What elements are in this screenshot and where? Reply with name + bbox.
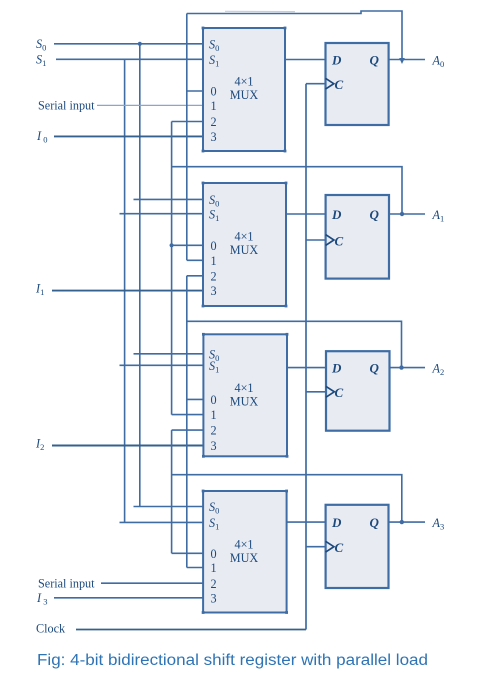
wire MUX3 pin1 stub from A1 bus <box>172 414 204 416</box>
flip-flop FF3 clock triangle and label C <box>326 386 334 397</box>
svg-text:Q: Q <box>370 360 380 375</box>
flip-flop FF1 clock triangle and label C <box>326 78 334 89</box>
wire MUX3 pin2 stub from A3 bus <box>172 429 204 431</box>
svg-text:C: C <box>335 77 344 92</box>
wire I1 input line <box>52 290 203 292</box>
wire clock stub to FF3 <box>306 391 326 393</box>
mux U3 (4x1 MUX stage 2) box <box>202 333 288 458</box>
wire FF3 Q output line <box>390 367 426 369</box>
artifact faint line above top wire <box>225 10 295 12</box>
svg-text:1: 1 <box>210 408 216 422</box>
wire clock stub to FF1 <box>306 83 326 85</box>
wire MUX2 S1 stub <box>120 213 204 215</box>
wire MUX3 pin0 stub from A2 bus <box>187 398 204 400</box>
svg-text:0: 0 <box>210 239 216 253</box>
svg-text:1: 1 <box>210 561 216 575</box>
svg-text:1: 1 <box>210 254 216 268</box>
mux U4 (4x1 MUX stage 3) box <box>202 490 288 614</box>
svg-text:3: 3 <box>210 130 216 144</box>
svg-text:0: 0 <box>210 547 216 561</box>
wire mux U2 output to FF2 D <box>286 213 326 215</box>
node A1 feedback junction dot <box>400 212 404 216</box>
flip-flop FF2 clock triangle and label C <box>326 235 334 246</box>
wire A2 feedback channel <box>187 321 402 367</box>
svg-text:Q: Q <box>370 207 380 222</box>
svg-text:Q: Q <box>370 52 380 67</box>
wire MUX2 pin0 stub from A1 bus <box>172 244 203 246</box>
svg-text:2: 2 <box>210 269 216 283</box>
wire mux U1 output to FF1 D <box>285 59 326 61</box>
flip-flop FF3 box <box>326 351 390 431</box>
wire FF2 Q output line <box>389 213 425 215</box>
wire FF4 Q output line <box>389 521 426 523</box>
svg-text:4×1: 4×1 <box>234 381 253 395</box>
svg-text:2: 2 <box>210 115 216 129</box>
svg-text:Serial input: Serial input <box>38 99 95 113</box>
svg-text:3: 3 <box>210 439 216 453</box>
wire clock stub to FF2 <box>306 239 326 241</box>
svg-text:MUX: MUX <box>230 394 259 408</box>
wire MUX4 pin1 stub from A2 bus <box>187 567 203 569</box>
wire A1 feedback channel <box>172 167 402 214</box>
svg-text:D: D <box>331 207 342 222</box>
svg-text:Fig: 4-bit bidirectional shift: Fig: 4-bit bidirectional shift register … <box>37 652 428 669</box>
wire MUX3 S0 stub <box>134 353 204 355</box>
net A3 vertical bus (feeds MUX3 pin2, MUX4 pin0) <box>171 430 173 553</box>
flip-flop FF4 clock triangle and label C <box>326 541 334 552</box>
svg-text:2: 2 <box>210 424 216 438</box>
wire I3 input line <box>54 597 203 599</box>
node S0 junction dot <box>138 42 142 46</box>
net A0 vertical bus (feeds MUX1 pin0 and MUX2 pin1) <box>186 14 188 261</box>
wire MUX4 pin0 stub from A3 bus <box>172 552 204 554</box>
mux U2 (4x1 MUX stage 1) box <box>202 182 288 308</box>
wire clock stub to FF4 <box>306 546 326 548</box>
wire serial input bottom line <box>101 582 203 584</box>
wire A3 feedback channel <box>172 475 402 522</box>
flip-flop FF2 box <box>326 195 389 279</box>
svg-text:3: 3 <box>210 284 216 298</box>
wire MUX4 S1 stub <box>120 521 204 523</box>
svg-text:MUX: MUX <box>230 88 259 102</box>
flip-flop FF1 box <box>326 43 389 125</box>
wire MUX1 pin2 stub from A1 bus <box>172 121 203 123</box>
wire S1 input line <box>56 58 203 60</box>
svg-text:Clock: Clock <box>36 622 66 636</box>
svg-text:Q: Q <box>370 515 380 530</box>
wire S1 select bus vertical <box>124 59 126 522</box>
svg-text:D: D <box>331 52 342 67</box>
svg-text:D: D <box>331 360 342 375</box>
wire MUX2 S0 stub <box>134 198 204 200</box>
mux U1 (4x1 MUX stage 0) box <box>202 27 287 153</box>
node A2 feedback junction dot <box>399 365 403 369</box>
wire MUX1 pin0 stub from A0 bus <box>187 90 203 92</box>
svg-text:D: D <box>331 515 342 530</box>
flip-flop FF4 box <box>326 505 389 588</box>
wire serial input top line <box>97 104 203 106</box>
svg-text:MUX: MUX <box>230 551 259 565</box>
svg-text:0: 0 <box>210 85 216 99</box>
wire clock line <box>76 629 306 631</box>
node A3 feedback junction dot <box>400 520 404 524</box>
svg-text:2: 2 <box>210 577 216 591</box>
svg-text:1: 1 <box>210 99 216 113</box>
svg-text:4×1: 4×1 <box>234 538 253 552</box>
wire mux U4 output to FF4 D <box>287 521 326 523</box>
wire mux U3 output to FF3 D <box>287 367 326 369</box>
wire MUX3 S1 stub <box>120 364 204 366</box>
svg-text:C: C <box>335 233 344 248</box>
wire MUX4 S0 stub <box>134 506 204 508</box>
node MUX2 pin0 junction dot <box>170 243 174 247</box>
wire S0 select bus vertical <box>139 44 141 507</box>
svg-text:C: C <box>335 385 344 400</box>
wire MUX2 pin2 stub from A2 bus <box>187 275 203 277</box>
wire I0 input line <box>54 135 203 137</box>
svg-text:0: 0 <box>210 393 216 407</box>
net A2 vertical bus (feeds MUX2 pin2, MUX3 pin0, MUX4 pin1) <box>186 276 188 568</box>
svg-text:3: 3 <box>210 591 216 605</box>
wire A0 feedback over the top <box>187 11 402 60</box>
wire MUX2 pin1 stub from A0 bus <box>187 259 203 261</box>
svg-text:Serial input: Serial input <box>38 577 95 591</box>
wire I2 input line <box>52 445 203 447</box>
svg-text:4×1: 4×1 <box>234 230 253 244</box>
svg-text:MUX: MUX <box>230 243 259 257</box>
arrow junction A0 feedback at FF1 Q <box>399 58 405 64</box>
wire FF1 Q output line <box>389 59 425 61</box>
svg-text:C: C <box>335 540 344 555</box>
wire clock bus vertical <box>305 84 307 630</box>
svg-text:4×1: 4×1 <box>234 75 253 89</box>
net A1 vertical bus (feeds MUX1 pin2, MUX2 pin0, MUX3 pin1) <box>171 122 173 415</box>
wire S0 input line <box>54 43 203 45</box>
